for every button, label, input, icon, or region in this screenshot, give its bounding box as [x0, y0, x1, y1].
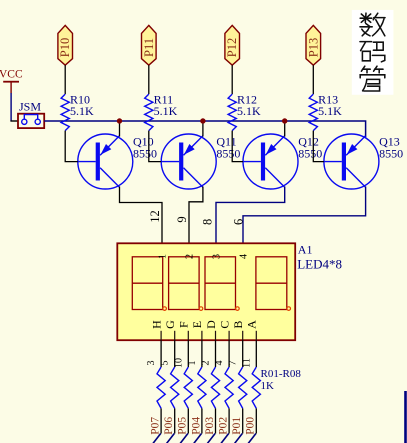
label R01-R08 1K	[261, 368, 302, 392]
junction dot	[282, 118, 287, 123]
junction dot	[200, 118, 205, 123]
svg-text:P07: P07	[150, 417, 162, 435]
char SHU 数	[364, 13, 367, 22]
wire resistor to port P01	[242, 408, 244, 433]
svg-text:G: G	[163, 320, 177, 329]
resistor R13 5.1K	[309, 92, 342, 130]
wire display pin 4 down	[228, 340, 230, 367]
wire display pin 7 down	[242, 340, 244, 367]
wire Q11 collector to display pin 2	[189, 187, 203, 244]
port P01 (cut off at edge)	[231, 417, 243, 443]
svg-text:8: 8	[201, 219, 215, 225]
resistor R11 5.1K	[145, 92, 178, 130]
port P02 (cut off at edge)	[218, 417, 230, 443]
svg-text:5: 5	[160, 361, 171, 366]
display segment pin name C	[217, 321, 231, 341]
svg-text:8550: 8550	[133, 147, 157, 161]
digit 3 outline	[205, 257, 239, 311]
svg-text:1: 1	[158, 254, 169, 259]
wire display pin 2 down	[215, 340, 217, 367]
svg-text:4: 4	[239, 254, 250, 259]
svg-text:P05: P05	[177, 417, 189, 435]
svg-text:P04: P04	[190, 417, 202, 435]
resistor R03 (1K)	[184, 367, 192, 408]
wire resistor to port P00	[255, 408, 257, 433]
digit 4 outline	[256, 257, 291, 311]
port P00 (cut off at edge)	[245, 417, 257, 443]
svg-text:VCC: VCC	[0, 69, 23, 81]
digit 2 outline	[169, 257, 203, 311]
svg-text:B: B	[231, 321, 245, 329]
svg-text:F: F	[177, 321, 191, 328]
svg-text:5.1K: 5.1K	[70, 104, 94, 118]
wire display pin 5 down	[174, 340, 176, 367]
svg-text:P13: P13	[306, 38, 320, 57]
svg-text:1: 1	[187, 361, 198, 366]
resistor R12 5.1K	[228, 92, 261, 130]
port P11	[142, 25, 157, 65]
wire resistor to port P07	[160, 408, 162, 433]
transistor Q12 8550 (PNP)	[243, 134, 322, 189]
power VCC	[0, 69, 23, 94]
port P07 (cut off at edge)	[150, 417, 162, 443]
wire R13 to Q13 base	[313, 131, 324, 162]
display segment pin name F	[177, 321, 191, 340]
wire display pin 3 down	[160, 340, 162, 367]
port P04 (cut off at edge)	[190, 417, 202, 443]
svg-text:C: C	[217, 321, 231, 329]
svg-text:12: 12	[148, 210, 162, 223]
svg-text:P11: P11	[142, 38, 156, 57]
junction dot	[117, 118, 122, 123]
svg-text:P00: P00	[245, 417, 257, 435]
wire R12 to Q12 base	[232, 131, 243, 162]
svg-text:2: 2	[201, 361, 212, 366]
wire resistor to port P04	[201, 408, 203, 433]
display segment pin name D	[204, 320, 218, 340]
display segment pin name E	[190, 321, 204, 340]
wire resistor to port P05	[187, 408, 189, 433]
svg-text:H: H	[149, 320, 163, 329]
display segment pin name A	[245, 320, 259, 340]
wire display pin 1 down	[201, 340, 203, 367]
svg-text:7: 7	[228, 361, 239, 366]
wire Q11 emitter to rail	[202, 121, 204, 137]
resistor R05 (1K)	[211, 367, 219, 408]
svg-text:P12: P12	[225, 38, 239, 57]
wire Q12 collector to display pin 3	[216, 187, 285, 244]
svg-text:2: 2	[185, 254, 196, 259]
digit 1 outline	[132, 257, 166, 311]
resistor R10 5.1K	[61, 92, 94, 130]
resistor R06 (1K)	[225, 367, 233, 408]
resistor R01 (1K)	[157, 367, 165, 408]
display segment pin name H	[149, 320, 163, 340]
wire Q10 collector to display pin 1	[120, 187, 163, 244]
svg-text:1K: 1K	[261, 380, 275, 392]
char GUAN 管	[361, 66, 364, 71]
wire P12 to resistor	[231, 65, 233, 94]
svg-text:5.1K: 5.1K	[237, 104, 261, 118]
resistor R02 (1K)	[171, 367, 179, 408]
wire resistor to port P06	[174, 408, 176, 433]
wire Q10 emitter to rail	[119, 121, 121, 137]
svg-text:P10: P10	[58, 38, 72, 57]
wire R11 to Q11 base	[149, 131, 161, 162]
wire Q12 emitter to rail	[284, 121, 286, 137]
svg-text:4: 4	[214, 361, 225, 366]
svg-text:P06: P06	[163, 417, 175, 435]
svg-text:6: 6	[232, 219, 246, 225]
display segment pin name G	[163, 320, 177, 340]
resistor R07 (1K)	[239, 367, 247, 408]
wire VCC rail (emitters)	[44, 121, 365, 137]
wire P13 to resistor	[312, 65, 314, 94]
svg-text:8550: 8550	[298, 147, 322, 161]
wire display pin 10 down	[187, 340, 189, 367]
transistor Q11 8550 (PNP)	[161, 134, 240, 189]
svg-text:P01: P01	[231, 417, 243, 435]
svg-text:R01-R08: R01-R08	[261, 368, 302, 380]
port P06 (cut off at edge)	[163, 417, 175, 443]
port P03 (cut off at edge)	[204, 417, 216, 443]
svg-text:P02: P02	[218, 417, 230, 435]
svg-text:3: 3	[212, 254, 223, 259]
svg-text:8550: 8550	[379, 147, 403, 161]
port P13	[306, 25, 321, 65]
wire resistor to port P02	[228, 408, 230, 433]
wire Q13 collector to display pin 4	[243, 187, 366, 244]
resistor R08 (1K)	[252, 367, 260, 408]
svg-text:P03: P03	[204, 417, 216, 435]
title text 数码管 (drawn)	[352, 10, 394, 95]
svg-text:E: E	[190, 321, 204, 328]
port P12	[225, 25, 240, 65]
svg-text:A1: A1	[298, 243, 313, 257]
svg-text:5.1K: 5.1K	[154, 104, 178, 118]
svg-text:9: 9	[175, 216, 189, 222]
wire R10 to Q10 base	[65, 131, 78, 162]
svg-text:A: A	[245, 320, 259, 329]
port P10	[58, 25, 73, 65]
svg-text:JSM: JSM	[19, 100, 41, 114]
wire P11 to resistor	[148, 65, 150, 94]
transistor Q10 8550 (PNP)	[78, 134, 157, 189]
svg-text:10: 10	[173, 358, 184, 368]
wire (cut off at right edge)	[404, 391, 407, 443]
wire P10 to resistor	[64, 65, 66, 94]
display A1 LED4*8	[117, 243, 295, 340]
transistor Q13 8550 (PNP)	[324, 134, 403, 189]
svg-text:3: 3	[146, 361, 157, 366]
svg-text:LED4*8: LED4*8	[297, 256, 342, 271]
display segment pin name B	[231, 321, 245, 341]
port P05 (cut off at edge)	[177, 417, 189, 443]
svg-text:8550: 8550	[216, 147, 240, 161]
svg-text:5.1K: 5.1K	[318, 104, 342, 118]
svg-text:D: D	[204, 320, 218, 329]
wire VCC to JSM	[10, 93, 18, 121]
wire display pin 11 down	[255, 340, 257, 367]
resistor R04 (1K)	[198, 367, 206, 408]
svg-text:11: 11	[241, 358, 252, 368]
jumper JSM	[18, 100, 44, 129]
char MA 码	[360, 41, 372, 43]
wire resistor to port P03	[215, 408, 217, 433]
